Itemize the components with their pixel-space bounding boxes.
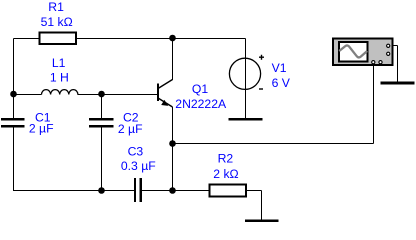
svg-text:0.3 µF: 0.3 µF xyxy=(121,159,156,173)
wire base rail (L1 row) left part xyxy=(14,94,42,96)
svg-text:R2: R2 xyxy=(218,152,234,166)
oscilloscope sine trace xyxy=(339,45,367,57)
svg-text:L1: L1 xyxy=(52,56,66,70)
resistor R2 xyxy=(210,185,247,197)
node junction collector/top rail xyxy=(169,35,176,42)
ground under V1 xyxy=(229,118,263,121)
wire top rail xyxy=(14,38,246,40)
oscilloscope connector bottom-right xyxy=(379,61,382,64)
wire left vertical upper xyxy=(13,39,15,120)
capacitor C3 xyxy=(135,178,141,202)
svg-text:V1: V1 xyxy=(272,61,287,75)
resistor R1 xyxy=(40,33,77,45)
wire collector vertical xyxy=(172,39,174,81)
wire scope ground horizontal xyxy=(390,45,398,47)
wire scope probe vertical xyxy=(373,63,375,144)
inductor L1 xyxy=(42,90,78,95)
svg-text:2 kΩ: 2 kΩ xyxy=(213,167,238,181)
oscilloscope connector bottom-left xyxy=(372,61,375,64)
transistor Q1 collector diagonal xyxy=(158,80,173,89)
svg-text:6 V: 6 V xyxy=(272,76,291,90)
svg-text:2N2222A: 2N2222A xyxy=(175,97,227,111)
source V1 minus sign xyxy=(259,88,263,90)
ground under scope xyxy=(381,82,415,85)
oscilloscope connector right-top xyxy=(387,44,390,47)
wire R2 ground vertical xyxy=(261,191,263,221)
ground under R2 xyxy=(245,219,278,222)
node junction emitter/scope xyxy=(169,140,176,147)
svg-text:1 H: 1 H xyxy=(50,70,69,84)
node junction L1/C2 xyxy=(98,91,105,98)
transistor Q1 emitter diagonal xyxy=(158,98,173,107)
capacitor C2 xyxy=(89,119,114,126)
wire emitter vertical xyxy=(172,107,174,191)
svg-text:R1: R1 xyxy=(48,0,64,14)
svg-text:51 kΩ: 51 kΩ xyxy=(41,15,73,29)
wire left vertical lower xyxy=(13,127,15,192)
oscilloscope connector right-bottom xyxy=(387,52,390,55)
wire bottom rail left of C3 xyxy=(14,190,135,192)
svg-text:C3: C3 xyxy=(128,145,144,159)
oscilloscope XSC1 body xyxy=(333,39,393,66)
wire scope ground vertical xyxy=(397,46,399,83)
oscilloscope screen xyxy=(339,42,368,62)
svg-text:2 µF: 2 µF xyxy=(29,121,54,135)
svg-text:Q1: Q1 xyxy=(192,82,208,96)
capacitor C1 xyxy=(1,119,25,126)
svg-text:2 µF: 2 µF xyxy=(118,122,143,136)
transistor Q1 base bar xyxy=(157,84,159,102)
wire V1 vertical xyxy=(245,39,247,119)
node junction C2/bottom rail xyxy=(98,187,105,194)
wire C2 vertical upper xyxy=(101,95,103,120)
wire scope probe horizontal xyxy=(173,143,374,145)
wire bottom rail right of C3 xyxy=(142,190,210,192)
source V1 plus sign xyxy=(259,55,264,60)
wire R2 right lead xyxy=(246,190,262,192)
transistor Q1 emitter arrow xyxy=(161,100,168,106)
source V1 circle xyxy=(229,58,260,89)
wire base rail (L1 row) right part to Q1 base xyxy=(78,94,158,96)
node junction left (L1/C1) xyxy=(10,91,17,98)
node junction emitter/bottom rail xyxy=(169,187,176,194)
wire C2 vertical lower xyxy=(101,127,103,192)
